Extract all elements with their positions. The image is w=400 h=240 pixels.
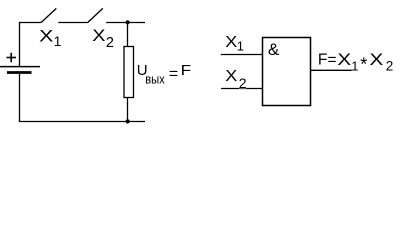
wire left vertical (battery bottom lead)	[19, 74, 21, 122]
svg-text:X: X	[39, 27, 53, 46]
svg-text:&: &	[268, 40, 280, 59]
svg-text:=: =	[328, 52, 337, 69]
battery B1 positive plate	[0, 66, 40, 68]
wire gate input 2	[221, 88, 262, 90]
svg-text:X: X	[370, 50, 384, 69]
svg-text:2: 2	[106, 35, 114, 51]
svg-text:1: 1	[54, 33, 62, 49]
svg-text:1: 1	[351, 59, 358, 74]
svg-text:F: F	[318, 51, 327, 68]
svg-text:X: X	[92, 26, 105, 45]
wire bottom horizontal	[19, 121, 145, 123]
svg-text:1: 1	[237, 39, 244, 54]
wire resistor top lead	[127, 22, 129, 47]
svg-text:2: 2	[386, 59, 394, 74]
svg-text:=: =	[169, 66, 178, 83]
wire gate output	[311, 69, 354, 71]
wire top-middle horizontal	[58, 22, 87, 24]
svg-text:X: X	[337, 50, 351, 69]
svg-text:вых: вых	[145, 73, 165, 87]
label F = X1 * X2	[318, 50, 393, 75]
label Uvyh = F	[137, 62, 192, 87]
wire gate input 1	[221, 54, 262, 56]
svg-text:X: X	[225, 68, 237, 85]
switch X1 (blade)	[41, 8, 56, 22]
node junction top	[126, 20, 130, 24]
battery B1 negative plate	[7, 71, 32, 74]
battery plus sign	[7, 53, 17, 63]
AND gate U1 (body)	[263, 38, 311, 106]
label gate input X2	[225, 68, 246, 91]
label X2	[92, 26, 114, 51]
switch X2 (blade)	[88, 8, 103, 22]
node junction bottom	[126, 119, 130, 123]
svg-text:F: F	[181, 62, 192, 79]
wire top-left horizontal	[19, 22, 41, 24]
wire top-right horizontal	[106, 22, 145, 24]
label X1	[39, 27, 61, 49]
resistor (load)	[124, 47, 134, 98]
label gate input X1	[225, 34, 244, 54]
wire resistor bottom lead	[127, 97, 129, 122]
svg-text:2: 2	[239, 75, 247, 91]
wire left vertical (battery top lead)	[19, 22, 21, 67]
svg-text:*: *	[360, 55, 367, 75]
